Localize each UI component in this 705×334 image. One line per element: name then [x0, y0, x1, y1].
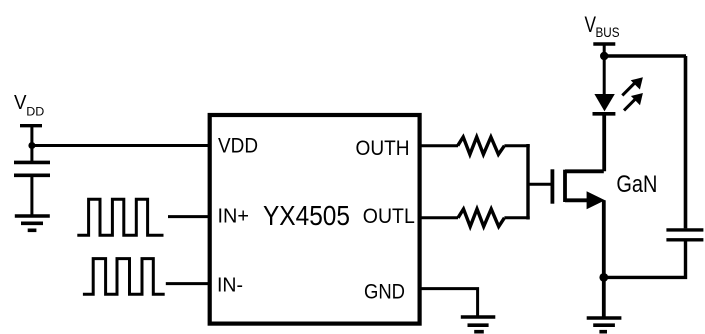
wire VBUS terminal down to LED anode: [603, 44, 606, 95]
wire source node to ground: [602, 277, 606, 318]
input waveform IN-: [83, 259, 165, 295]
svg-text:GND: GND: [364, 281, 405, 304]
wire VDD junction to pin VDD: [32, 144, 210, 147]
svg-text:OUTL: OUTL: [363, 205, 415, 228]
wire right rail down to C2: [684, 56, 688, 228]
ground (left): [15, 216, 50, 230]
wire VDD terminal down to junction: [30, 126, 33, 163]
svg-text:V: V: [585, 12, 597, 37]
svg-text:DD: DD: [26, 105, 44, 119]
wire gate tap: [528, 183, 551, 186]
node source junction: [599, 273, 608, 282]
power terminal VDD bar: [20, 124, 42, 127]
net label VDD: [14, 92, 45, 119]
wire gate join vertical: [526, 144, 529, 220]
wire C1 to ground: [30, 175, 33, 216]
wire VBUS junction to right rail: [604, 54, 686, 57]
wire R1 to gate node: [504, 144, 529, 147]
wire OUTL pin to R2: [420, 216, 458, 219]
svg-text:V: V: [14, 92, 27, 114]
LED D1: [593, 94, 616, 114]
svg-text:GaN: GaN: [616, 171, 657, 198]
svg-text:VDD: VDD: [218, 135, 258, 158]
wire C2 to source node: [604, 240, 686, 278]
power terminal VBUS bar: [593, 42, 615, 45]
svg-text:OUTH: OUTH: [356, 137, 410, 160]
svg-text:IN-: IN-: [217, 275, 243, 297]
capacitor C1: [14, 162, 50, 175]
ground (center at GND pin): [461, 317, 496, 332]
wire IN-: [166, 282, 210, 285]
wire Q1 source down to node: [602, 200, 606, 277]
LED D1 light arrow upper: [622, 77, 643, 95]
ground (right): [587, 318, 622, 332]
svg-text:IN+: IN+: [218, 206, 250, 228]
wire R2 to gate node: [504, 216, 529, 219]
wire IN+: [168, 215, 210, 218]
input waveform IN+: [77, 199, 163, 235]
IC U1 YX4505 body: [210, 115, 420, 324]
node VBUS junction: [600, 52, 608, 60]
resistor R1: [458, 137, 505, 154]
wire OUTH pin to R1: [420, 144, 458, 147]
wire GND pin to ground: [420, 289, 478, 317]
capacitor C2: [666, 230, 703, 240]
LED D1 light arrow lower: [624, 93, 643, 110]
svg-text:YX4505: YX4505: [263, 200, 350, 231]
node VDD junction: [28, 142, 35, 149]
transistor Q1 GaN FET: [552, 169, 605, 209]
svg-text:BUS: BUS: [596, 24, 620, 40]
wire D1 cathode to Q1 drain: [602, 114, 606, 172]
net label VBUS: [585, 12, 620, 40]
resistor R2: [458, 209, 504, 227]
